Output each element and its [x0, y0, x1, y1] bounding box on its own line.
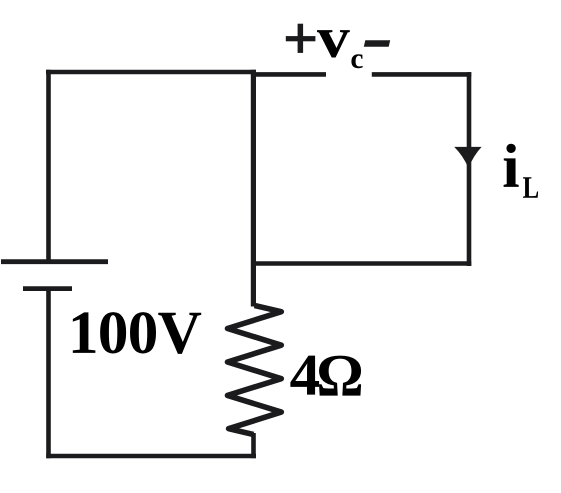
battery V1 short plate (-) — [23, 286, 72, 291]
wire middle horizontal (right loop bottom) — [251, 261, 471, 266]
wire below resistor — [251, 433, 256, 458]
label plus sign of vc — [286, 36, 316, 41]
wire left vertical (top, source + to top node) — [46, 70, 51, 260]
label c subscript of vc — [351, 54, 362, 68]
wire top-left horizontal — [46, 70, 256, 75]
wire top-right horizontal (right of capacitor gap) — [372, 72, 472, 77]
resistor R1 zigzag — [228, 306, 282, 435]
battery V1 long plate (+) — [1, 259, 108, 264]
label 100V source value — [73, 312, 96, 353]
label 4 ohm resistor value — [290, 356, 319, 395]
label i of iL — [504, 144, 519, 187]
wire middle vertical (top node to resistor) — [251, 70, 256, 307]
label Omega of resistor value — [319, 356, 361, 396]
label minus sign of vc — [364, 40, 390, 47]
wire top-right horizontal (left of capacitor gap) — [251, 72, 326, 77]
label L subscript of iL — [523, 177, 538, 197]
label v of vc — [317, 30, 350, 57]
wire right vertical (inductor branch) — [467, 72, 472, 266]
wire left vertical (bottom, source - to bottom node) — [46, 289, 51, 459]
wire bottom horizontal — [46, 454, 256, 459]
arrowhead current direction iL — [454, 147, 481, 168]
